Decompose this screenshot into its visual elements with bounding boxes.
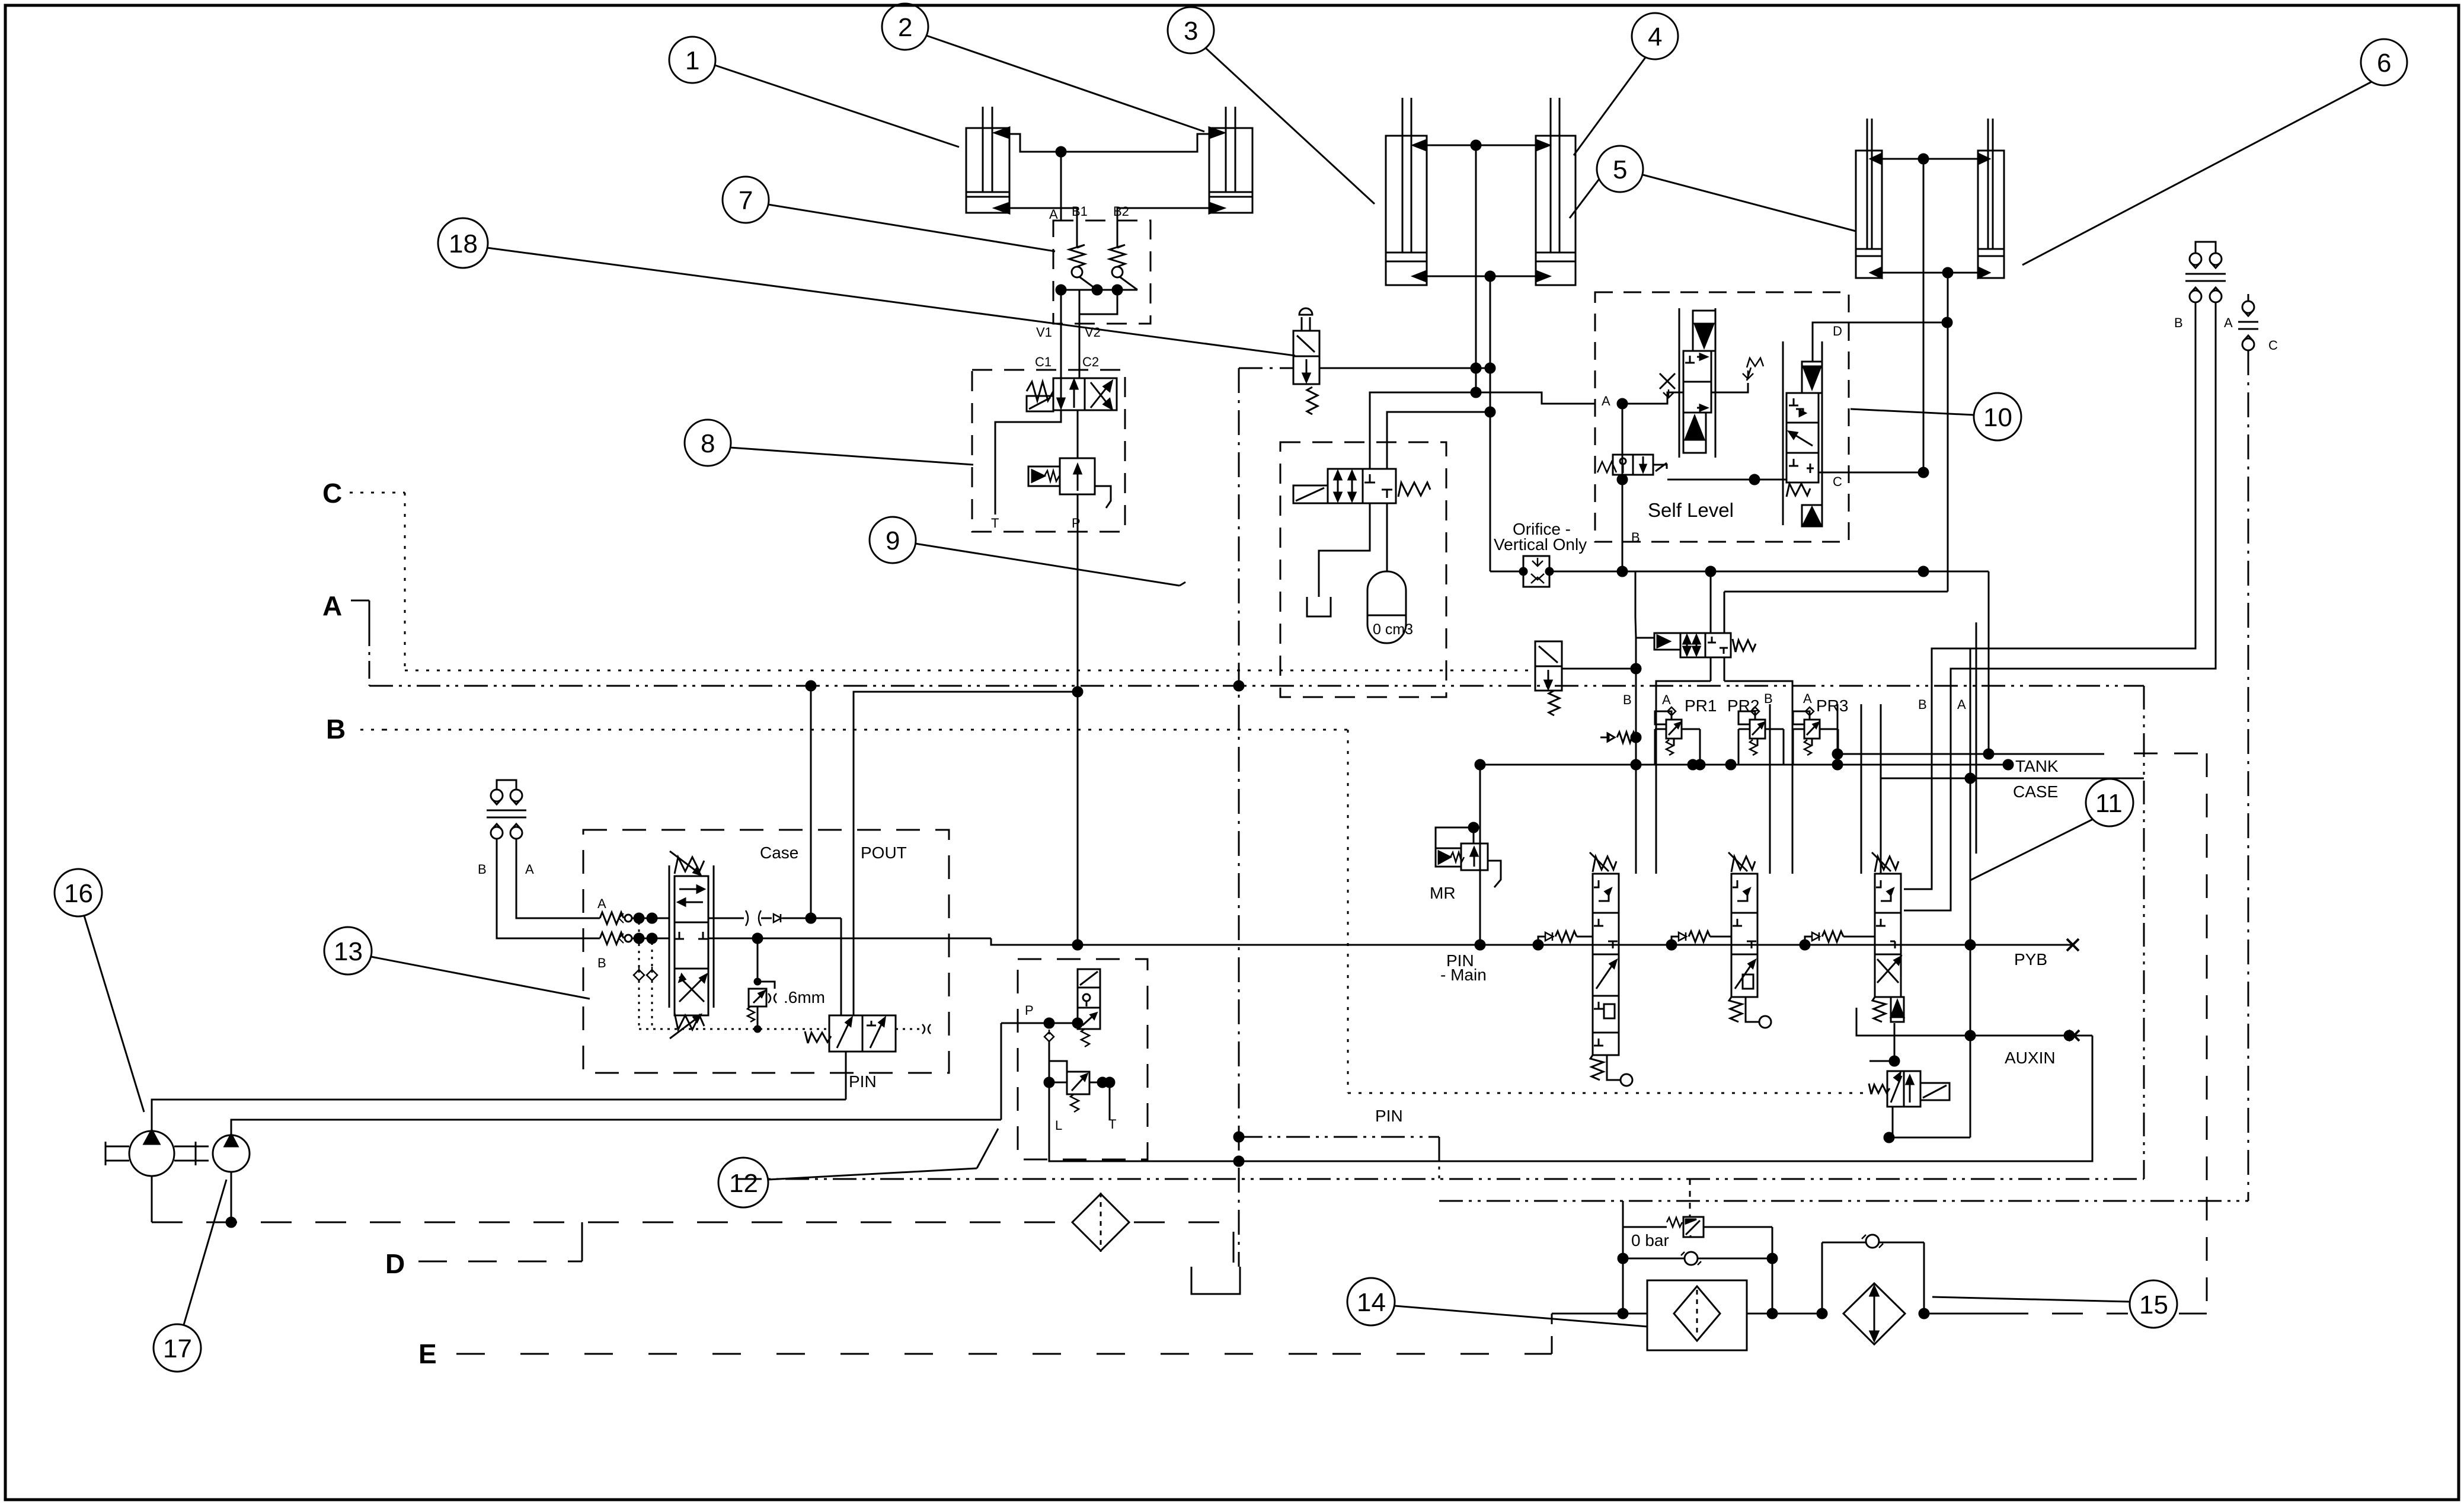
svg-text:PYB: PYB	[2014, 950, 2047, 969]
svg-text:2: 2	[898, 13, 912, 42]
wire AUXIN feed	[1856, 1008, 2092, 1036]
node pair2 top junction	[1471, 140, 1481, 150]
wire T drain from valve 8	[995, 410, 1061, 515]
self level right valve	[1783, 341, 1822, 526]
wire bus2 dash-dot-dot	[1439, 1200, 2248, 1202]
svg-text:- Main: - Main	[1440, 966, 1487, 984]
wire valve18 outlet to cylinder risers	[1319, 368, 1490, 369]
wire POUT vertical	[854, 692, 1078, 1015]
wire junction down to port A	[1060, 152, 1062, 221]
svg-text:A: A	[322, 590, 342, 621]
wire riser pair2 bottom down	[1490, 276, 1491, 571]
wire shutoff bottom ports	[1710, 657, 1712, 681]
wire L T drain down	[1049, 1082, 1239, 1161]
wire U9 to accumulator	[1386, 503, 1388, 571]
wire pair2 top interconnect	[1427, 145, 1536, 146]
wire hose A to item13	[516, 839, 595, 918]
pressure reducing valve PR1	[1655, 707, 1700, 765]
svg-text:3: 3	[1184, 17, 1198, 46]
svg-text:12: 12	[729, 1169, 758, 1198]
svg-text:AUXIN: AUXIN	[2005, 1049, 2056, 1067]
wire pair2 bottom interconnect	[1427, 276, 1536, 277]
svg-text:9: 9	[886, 526, 900, 555]
callout 18	[438, 218, 1295, 356]
spring check B inlet	[595, 932, 632, 944]
svg-text:B: B	[1631, 530, 1640, 545]
svg-text:4: 4	[1648, 23, 1662, 52]
svg-text:POUT: POUT	[861, 843, 907, 862]
spring valve U9	[1398, 483, 1430, 497]
wire CASE dash-dot-dot vertical	[2143, 686, 2145, 1179]
check valve pilot feed bank	[1600, 732, 1641, 743]
svg-text:17: 17	[163, 1334, 192, 1363]
svg-text:10: 10	[1983, 403, 2012, 432]
wire pair3 bottom interconnect	[1882, 272, 1978, 274]
svg-text:B: B	[478, 862, 487, 877]
check valve B2 pilot-op	[1110, 221, 1137, 290]
orifice cross on A feed	[1660, 373, 1675, 398]
pump 16 main	[106, 1130, 209, 1176]
cylinder 2 (right lift cylinder)	[1209, 107, 1252, 213]
svg-text:15: 15	[2139, 1290, 2168, 1319]
wire AUXIN return loop	[1239, 1036, 2092, 1161]
box 9 dashed enclosure (ride control)	[1280, 442, 1446, 697]
svg-text:.6mm: .6mm	[784, 988, 825, 1006]
node D line start	[418, 1222, 582, 1261]
svg-text:13: 13	[334, 937, 363, 966]
wire lower interconnect in box	[1711, 403, 1787, 490]
callout 9	[870, 517, 1185, 586]
wire pilot dotted down to bank	[1347, 730, 1349, 1093]
box 13 dashed enclosure	[583, 830, 949, 1073]
box 11 dashed top edge	[2134, 753, 2207, 755]
pump 17 secondary	[213, 1134, 250, 1172]
wire hose B to item13	[497, 839, 595, 938]
node C hose label line	[350, 493, 405, 670]
wire pair3 top interconnect	[1882, 158, 1978, 160]
wire work port risers section2	[1769, 704, 1771, 874]
callout 12	[718, 1129, 998, 1207]
svg-text:PR3: PR3	[1816, 696, 1848, 715]
wire cyl1 bottom to B1	[1009, 208, 1077, 221]
svg-text:18: 18	[449, 229, 478, 258]
callout 4	[1574, 13, 1678, 155]
svg-text:L: L	[1055, 1118, 1062, 1133]
wire filter row mid	[1747, 1313, 1822, 1315]
X marker PYB	[2067, 939, 2079, 951]
callout 16	[55, 869, 144, 1112]
wire self level B down	[1622, 522, 1624, 571]
pressure reducing valve PR2	[1738, 707, 1784, 765]
check valve B1 pilot-op	[1069, 221, 1097, 290]
wire shutoff top port to orifice line	[1710, 571, 1712, 633]
svg-text:E: E	[418, 1338, 437, 1369]
tank symbol main	[1191, 1267, 1240, 1294]
return filter circuit left vertical	[1622, 1201, 1624, 1314]
wire CASE line	[1881, 778, 2144, 779]
orifice on A out	[708, 910, 841, 926]
wire riser to shutoff valve left	[1635, 571, 1637, 616]
svg-text:B: B	[597, 956, 606, 970]
wire cyl2 bottom to B2	[1117, 208, 1209, 221]
svg-text:A: A	[525, 862, 534, 877]
valve 8 dashed enclosure	[972, 370, 1125, 532]
supply shutoff solenoid valve top of bank	[1654, 633, 1756, 657]
wire pilot shutoff out	[1562, 668, 1636, 670]
wire bus B dotted	[384, 729, 1348, 731]
svg-text:Self Level: Self Level	[1648, 499, 1734, 521]
svg-text:V2: V2	[1085, 325, 1101, 340]
valve U8 body	[1053, 378, 1117, 410]
self level box 10 dashed	[1595, 292, 1849, 542]
wire B out to relief	[708, 938, 991, 940]
suction strainer filter	[1072, 1193, 1129, 1252]
callout 3	[1168, 7, 1375, 204]
svg-text:C2: C2	[1082, 354, 1099, 369]
valve 18 (manual pilot valve)	[1293, 308, 1319, 414]
svg-text:A: A	[1602, 394, 1610, 408]
quick coupler pair item13	[487, 780, 526, 839]
svg-text:A: A	[1662, 692, 1671, 707]
valve U9 body	[1328, 469, 1396, 503]
svg-text:Case: Case	[760, 843, 798, 862]
wire filter row left	[1589, 1313, 1647, 1315]
callout 15	[1932, 1280, 2177, 1328]
callout 1	[669, 37, 959, 147]
dotted pilot bus item13	[639, 1028, 828, 1030]
wire PIN down to pump line	[845, 1052, 847, 1100]
svg-text:C: C	[322, 478, 342, 509]
svg-text:P: P	[1072, 516, 1081, 531]
wire valve18 left pilot dash-dot	[1239, 368, 1293, 369]
node pair2 bottom junction	[1485, 271, 1495, 281]
svg-text:B2: B2	[1113, 204, 1129, 219]
wire PIN dotted line	[1348, 1092, 1870, 1094]
svg-text:A: A	[1803, 691, 1812, 706]
svg-text:A: A	[2224, 315, 2233, 330]
wire riser pair3 left	[1923, 159, 1925, 472]
relief valve MR	[1436, 760, 1501, 950]
wire vertical 3355 orifice-line down to TANK	[1988, 571, 1990, 754]
svg-text:B: B	[326, 714, 346, 744]
svg-text:B1: B1	[1072, 204, 1088, 219]
wire U9 drain to tank	[1319, 503, 1370, 597]
svg-text:1: 1	[685, 46, 699, 75]
wire pump1 outlet	[152, 1100, 846, 1131]
wire orifice line to the right	[1549, 571, 1989, 573]
filter 14 box	[1647, 1280, 1747, 1350]
wire U9 right port up	[1387, 412, 1490, 469]
wire cyl1-cyl2 top interconnect	[1009, 134, 1209, 152]
svg-text:CASE: CASE	[2013, 782, 2058, 801]
svg-text:PR1: PR1	[1685, 696, 1717, 715]
svg-text:PR2: PR2	[1727, 696, 1759, 715]
svg-text:8: 8	[701, 429, 715, 458]
svg-text:B: B	[1764, 691, 1773, 706]
svg-text:A: A	[1957, 697, 1966, 712]
svg-text:7: 7	[739, 186, 753, 215]
pilot shutoff valve above bank	[1535, 641, 1562, 715]
cylinder 1 (left lift cylinder)	[966, 107, 1009, 213]
spool section 1	[1538, 852, 1632, 1086]
cylinder 3 (left tilt cylinder)	[1386, 98, 1427, 285]
main pressure line PIN	[991, 938, 2073, 945]
callout 6	[2022, 39, 2407, 265]
wire to pilot valve left	[840, 918, 842, 1015]
pilot valve item13	[805, 1015, 931, 1052]
wire pump suctions	[151, 1176, 153, 1222]
wire vertical 3334 down to CASE	[1976, 622, 1977, 854]
check and spring mid	[1743, 358, 1763, 381]
wire V2 down to valve 8	[1079, 314, 1081, 378]
wire hose B right side	[1904, 302, 2195, 889]
relief valve 12	[1044, 1041, 1114, 1120]
pressure reducing valve PR3	[1793, 707, 1838, 765]
wire bus C dotted	[405, 670, 1535, 672]
bypass check filter 14	[1623, 1227, 1777, 1318]
aux relief valve	[1869, 1023, 1970, 1142]
wire C line vertical 3245 end	[1919, 468, 1928, 477]
wire P inlet	[1001, 1022, 1078, 1024]
spool section 3	[1805, 852, 1904, 1022]
wire dash-dot tank drain vertical	[1238, 368, 1240, 1267]
svg-text:D: D	[385, 1248, 405, 1279]
wire E riser	[1551, 1314, 1553, 1354]
accumulator (0 cm3)	[1367, 571, 1406, 643]
wire pilot riser to orifice line	[1490, 571, 1523, 573]
svg-text:14: 14	[1357, 1288, 1386, 1317]
svg-text:A: A	[597, 896, 606, 911]
wire A to left valve	[1622, 392, 1683, 404]
callout 5	[1570, 146, 1856, 231]
wire C from right valve	[1819, 472, 1923, 474]
svg-text:MR: MR	[1430, 884, 1456, 902]
mini relief .6mm	[747, 938, 776, 1032]
tank symbol in box 9	[1307, 597, 1331, 616]
wire D from right valve	[1813, 322, 1947, 362]
wire left valve lower port	[1622, 414, 1683, 416]
spool section 2	[1672, 852, 1771, 1028]
wire check outlet bus	[1061, 289, 1137, 291]
svg-text:PIN: PIN	[1375, 1107, 1403, 1125]
svg-text:16: 16	[64, 879, 93, 908]
bypass relief 0 bar	[1623, 1179, 1772, 1237]
pressure reducer in box 8	[1028, 458, 1111, 508]
cylinder 6 (right aux cylinder)	[1978, 119, 2004, 278]
svg-text:5: 5	[1613, 155, 1627, 184]
callout 7	[723, 177, 1055, 251]
svg-text:C1: C1	[1035, 354, 1052, 369]
svg-text:B: B	[1623, 692, 1632, 707]
wire riser pair2 top-to-A-line	[1475, 145, 1477, 392]
check diamonds pilot	[634, 922, 657, 1029]
wire C2 valve8 to reducer	[1077, 410, 1079, 458]
wire bus0 dash-dot-dot	[1239, 1136, 1439, 1138]
svg-text:C: C	[2268, 338, 2278, 353]
cooler 15 with bypass check	[1822, 1235, 1929, 1344]
svg-text:11: 11	[2095, 789, 2123, 818]
valve U8 solenoid box	[1027, 396, 1053, 411]
svg-text:PIN: PIN	[849, 1072, 877, 1091]
callout 10	[1851, 393, 2021, 440]
quick coupler C right	[2238, 294, 2258, 350]
quick coupler pair B/A top right	[2185, 242, 2226, 302]
callout 14	[1347, 1278, 1647, 1327]
svg-text:T: T	[991, 516, 999, 531]
wire U9 left port up to A line	[1370, 392, 1476, 469]
wire strainer to tank	[1134, 1222, 1233, 1267]
valve U9 solenoid	[1293, 485, 1328, 503]
spring check A inlet	[595, 912, 632, 924]
wire vertical 3324 aux drain long	[1970, 648, 1971, 1137]
check on pilot takeoff	[1044, 1030, 1054, 1041]
wire riser pair3 right	[1947, 273, 1949, 592]
callout 13	[324, 927, 590, 999]
wire hose C dash-dot down	[2248, 350, 2249, 1201]
svg-text:B: B	[1918, 697, 1927, 712]
node junction top interconnect	[1056, 147, 1066, 156]
suction bus dashed	[152, 1222, 1067, 1223]
X marker AUXIN	[2069, 1030, 2079, 1041]
wire V2 jog	[1079, 290, 1117, 314]
node E line start	[456, 1353, 1332, 1355]
valve U8 solenoid section spring	[1027, 382, 1053, 401]
node A hose label line	[351, 600, 369, 686]
box 12 dashed enclosure	[1018, 959, 1148, 1159]
wire shutoff left port	[1636, 637, 1654, 639]
svg-text:Vertical Only: Vertical Only	[1494, 535, 1587, 554]
cylinder 4 (right tilt cylinder)	[1536, 98, 1575, 285]
svg-text:V1: V1	[1036, 325, 1052, 340]
callout 17	[154, 1180, 226, 1372]
wire B to spool 13	[632, 938, 669, 940]
wire V1 down to valve 8	[1060, 290, 1062, 394]
wire A line jog to self level	[1476, 392, 1595, 404]
svg-text:P: P	[1025, 1003, 1034, 1018]
wire check to valves mid	[1711, 383, 1748, 392]
node B hose label line	[360, 729, 384, 731]
cylinder 5 (left aux cylinder)	[1856, 119, 1882, 278]
node dots on outlet bus	[1056, 285, 1066, 295]
wire hose A right side	[1904, 302, 2216, 910]
wire A to spool 13	[632, 918, 669, 919]
callout 11	[1970, 779, 2133, 880]
wire bus1 dash-dot-dot	[738, 1178, 2144, 1180]
svg-text:0 cm3: 0 cm3	[1373, 621, 1413, 638]
dashed return line segments	[1924, 1313, 1998, 1315]
wire work port risers section3	[1861, 704, 1862, 874]
box 11 dashed right edge	[2206, 753, 2208, 1314]
callout 2	[882, 4, 1204, 132]
callout 8	[685, 420, 973, 466]
valve 7 dashed box (dual pilot check)	[1053, 221, 1150, 324]
self level left valve (flow divider)	[1679, 308, 1715, 458]
svg-text:A: A	[1049, 207, 1058, 222]
wire work port risers section1	[1635, 638, 1637, 874]
svg-text:TANK: TANK	[2015, 757, 2059, 775]
svg-text:C: C	[1833, 474, 1842, 489]
wire D-branch horizontal y998	[1724, 591, 1948, 593]
svg-text:0 bar: 0 bar	[1631, 1231, 1669, 1250]
wire bus A dash-dot-dot	[369, 685, 2144, 687]
svg-text:6: 6	[2377, 49, 2391, 78]
wire P long vertical to main pressure line	[1077, 494, 1079, 942]
spool valve 13	[669, 851, 714, 1039]
wire TANK line	[1480, 764, 2009, 766]
wire pump2 outlet	[231, 1120, 1001, 1135]
self level A-B riser	[1622, 404, 1624, 522]
self level solenoid pilot valve	[1597, 455, 1667, 475]
wire pump2 riser to P	[1001, 1023, 1002, 1120]
orifice block - vertical only	[1520, 556, 1553, 587]
wire case vertical in box	[810, 686, 812, 918]
svg-text:D: D	[1833, 324, 1842, 338]
svg-text:B: B	[2174, 315, 2183, 330]
pilot sequence valve 12	[1078, 969, 1100, 1047]
